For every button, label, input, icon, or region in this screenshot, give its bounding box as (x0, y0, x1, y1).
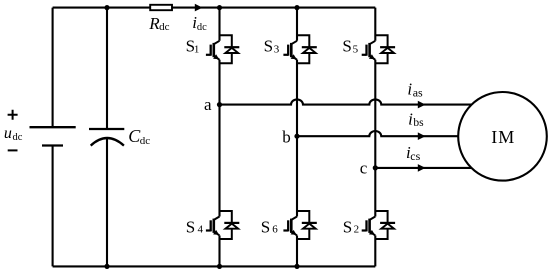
svg-text:b: b (282, 127, 291, 146)
svg-text:S: S (343, 217, 352, 236)
svg-text:IM: IM (491, 127, 515, 147)
svg-text:S: S (186, 217, 195, 236)
svg-text:i: i (408, 109, 413, 128)
svg-text:1: 1 (194, 44, 200, 56)
svg-text:dc: dc (159, 21, 170, 33)
svg-text:i: i (407, 80, 412, 99)
svg-text:u: u (4, 125, 12, 142)
svg-text:S: S (261, 217, 270, 236)
svg-text:3: 3 (274, 44, 280, 56)
svg-text:c: c (360, 159, 368, 178)
svg-text:2: 2 (354, 224, 360, 236)
svg-text:6: 6 (272, 224, 278, 236)
svg-text:as: as (413, 86, 423, 100)
svg-text:dc: dc (197, 22, 207, 33)
svg-text:S: S (264, 37, 273, 56)
svg-text:a: a (204, 95, 212, 114)
svg-text:bs: bs (413, 117, 424, 129)
svg-text:cs: cs (410, 149, 420, 163)
svg-text:S: S (342, 37, 351, 56)
svg-text:dc: dc (140, 135, 151, 147)
svg-text:dc: dc (13, 132, 23, 143)
svg-text:5: 5 (353, 44, 359, 56)
svg-text:4: 4 (198, 224, 204, 236)
